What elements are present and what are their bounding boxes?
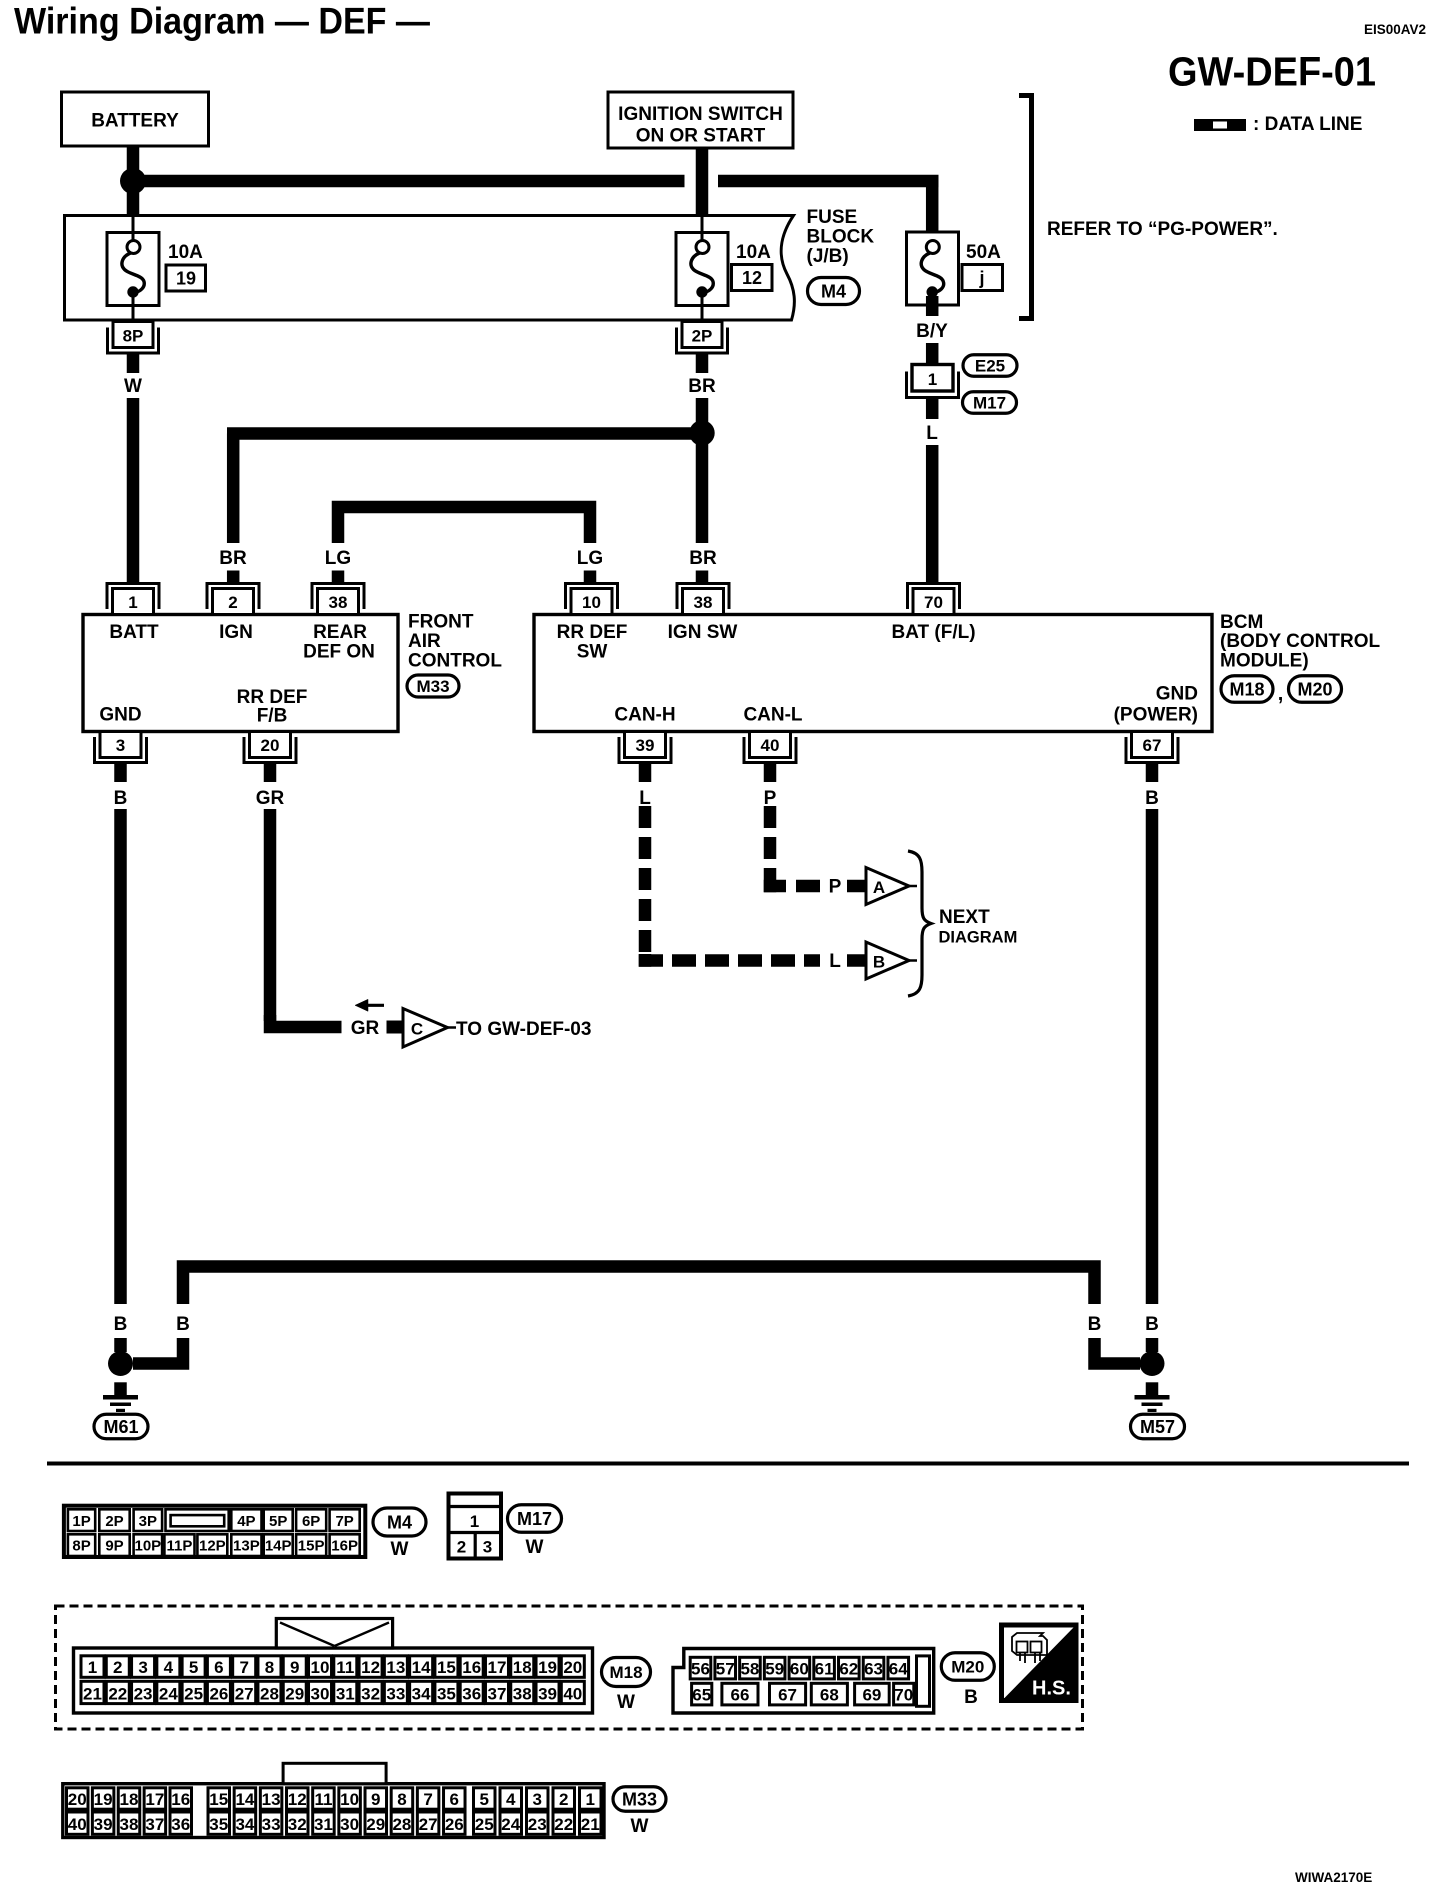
svg-text:16: 16 [171,1790,190,1809]
svg-text:(POWER): (POWER) [1114,705,1198,726]
svg-text:C: C [411,1020,423,1039]
wire right elbow down to 50A fuse [926,181,939,243]
svg-text:12P: 12P [199,1538,226,1555]
svg-text:64: 64 [889,1659,908,1678]
svg-text:12: 12 [361,1658,380,1677]
wire CAN-L stub [764,763,777,782]
svg-text:10P: 10P [134,1538,161,1555]
svg-text:32: 32 [288,1815,307,1834]
svg-text:5: 5 [480,1790,489,1809]
wire battery junction to fuse block [127,181,140,214]
svg-text:M20: M20 [951,1658,984,1677]
svg-text:W: W [124,376,142,397]
svg-text:19: 19 [94,1790,113,1809]
svg-text:70: 70 [894,1685,913,1704]
svg-text:10: 10 [340,1790,359,1809]
svg-text:,: , [1278,683,1284,705]
connector 8P under fuse 19 [108,328,159,354]
svg-text:50A: 50A [966,242,1001,263]
svg-text:38: 38 [513,1684,532,1703]
svg-text:9: 9 [371,1790,380,1809]
svg-text:1: 1 [128,593,137,612]
svg-text:21: 21 [581,1815,600,1834]
svg-text:65: 65 [692,1685,711,1704]
svg-text:F/B: F/B [257,706,288,727]
wire FAC3 stub [114,763,127,782]
connector table M33 [63,1784,604,1838]
svg-text:M17: M17 [517,1509,552,1529]
svg-text:B: B [1145,1314,1159,1335]
junction dot battery bus [120,168,146,194]
svg-text:9P: 9P [105,1538,123,1555]
svg-text:IGNITION SWITCH: IGNITION SWITCH [618,104,783,125]
svg-text:16P: 16P [331,1538,358,1555]
svg-text:GND: GND [1156,684,1198,705]
svg-text:17: 17 [145,1790,164,1809]
svg-text:7: 7 [423,1790,432,1809]
svg-text:3P: 3P [139,1513,157,1530]
stub to arrow C [387,1021,402,1034]
svg-text:24: 24 [501,1815,520,1834]
svg-text:36: 36 [171,1815,190,1834]
svg-text:63: 63 [864,1659,883,1678]
svg-text:6: 6 [214,1658,223,1677]
svg-text:27: 27 [235,1684,254,1703]
svg-text:28: 28 [392,1815,411,1834]
svg-text:7P: 7P [335,1513,353,1530]
svg-text:67: 67 [1143,736,1162,755]
svg-text:11: 11 [336,1658,354,1677]
bus wire battery junction to ignition crossing [139,175,685,188]
fuse 10A #19 [107,233,159,306]
svg-text:3: 3 [533,1790,542,1809]
svg-text:10A: 10A [168,242,203,263]
svg-text:5P: 5P [269,1513,287,1530]
svg-text:26: 26 [209,1684,228,1703]
svg-text:GR: GR [256,788,285,809]
svg-text:6P: 6P [302,1513,320,1530]
connector table M18 [74,1648,593,1713]
svg-text:3: 3 [483,1538,492,1557]
svg-text:35: 35 [437,1684,456,1703]
svg-text:WIWA2170E: WIWA2170E [1295,1870,1372,1885]
svg-text:9: 9 [290,1658,299,1677]
wire 2P to BR label [696,354,709,373]
svg-text:: DATA LINE: : DATA LINE [1253,114,1362,135]
arrow B to next diagram [866,942,909,979]
svg-text:12: 12 [742,268,762,288]
svg-text:W: W [391,1539,409,1560]
svg-text:23: 23 [528,1815,547,1834]
svg-text:4: 4 [506,1790,516,1809]
wire 8P to W label [127,354,140,373]
svg-text:1: 1 [928,370,937,389]
BCM pin 39 [619,737,671,763]
svg-text:W: W [631,1816,649,1837]
svg-text:BLOCK: BLOCK [807,227,875,248]
svg-text:38: 38 [694,593,713,612]
svg-text:E25: E25 [975,357,1005,376]
wire FAC GND long down [114,809,127,1304]
wire BR label to junction [696,398,709,433]
svg-text:31: 31 [336,1684,355,1703]
svg-text:B: B [964,1687,978,1708]
ignition switch [608,92,793,148]
wire B/Y to inline connector [926,343,939,365]
svg-text:21: 21 [83,1684,102,1703]
svg-text:L: L [926,423,938,444]
svg-text:M17: M17 [973,394,1006,413]
svg-text:TO GW-DEF-03: TO GW-DEF-03 [456,1019,591,1040]
svg-text:BR: BR [689,548,717,569]
svg-text:GW-DEF-01: GW-DEF-01 [1168,49,1376,95]
svg-text:66: 66 [730,1685,749,1704]
inline connector 1 (E25/M17) [907,372,959,398]
svg-text:RR DEF: RR DEF [557,622,628,643]
front air control box [83,615,398,732]
svg-text:P: P [829,877,842,898]
svg-text:22: 22 [108,1684,127,1703]
svg-text:40: 40 [761,736,780,755]
svg-text:1P: 1P [72,1513,90,1530]
data line CAN-H dashed [639,806,652,828]
wire W to FAC pin 1 [127,398,140,584]
svg-text:IGN: IGN [219,622,253,643]
svg-text:M4: M4 [821,281,846,301]
data line legend [1194,119,1246,131]
FAC pin 1 [107,584,159,610]
svg-text:DEF ON: DEF ON [303,642,375,663]
svg-text:2P: 2P [692,327,713,346]
svg-text:4P: 4P [237,1513,255,1530]
svg-text:31: 31 [314,1815,333,1834]
svg-text:62: 62 [839,1659,858,1678]
svg-text:20: 20 [563,1658,582,1677]
svg-text:25: 25 [475,1815,494,1834]
ground ref M57 [1131,1414,1185,1439]
svg-text:38: 38 [120,1815,139,1834]
svg-text:FRONT: FRONT [408,612,474,633]
svg-text:15: 15 [209,1790,228,1809]
stub to arrow A [847,880,866,893]
svg-text:SW: SW [577,642,608,663]
svg-text:11P: 11P [167,1538,193,1555]
svg-text:(J/B): (J/B) [807,246,849,267]
svg-text:13: 13 [386,1658,405,1677]
svg-text:59: 59 [765,1659,784,1678]
connector table M17 [449,1494,502,1559]
wire GR down [264,809,277,1021]
svg-text:67: 67 [778,1685,797,1704]
svg-text:2: 2 [559,1790,568,1809]
svg-text:20: 20 [261,736,280,755]
svg-text:37: 37 [145,1815,164,1834]
FAC pin 2 [207,584,259,610]
svg-text:B: B [176,1314,190,1335]
svg-text:20: 20 [68,1790,87,1809]
svg-text:56: 56 [691,1659,710,1678]
svg-text:29: 29 [285,1684,304,1703]
data line CAN-L dashed [764,806,777,828]
svg-text:L: L [829,951,841,972]
svg-text:18: 18 [120,1790,139,1809]
separator line [47,1462,1409,1466]
svg-text:A: A [873,878,885,897]
H.S. badge [1002,1625,1077,1701]
BCM pin 38 [677,584,729,610]
svg-text:11: 11 [314,1790,332,1809]
connector ref E25 [963,355,1017,377]
svg-text:36: 36 [462,1684,481,1703]
wire ignition switch down through bus to fuse block [696,148,709,214]
svg-text:69: 69 [862,1685,881,1704]
svg-text:Wiring Diagram — DEF —: Wiring Diagram — DEF — [14,1,430,42]
svg-text:2: 2 [457,1538,466,1557]
svg-text:M4: M4 [387,1512,412,1532]
svg-text:23: 23 [134,1684,153,1703]
svg-text:10A: 10A [736,242,771,263]
wire BCM67 stub [1146,763,1159,782]
svg-text:28: 28 [260,1684,279,1703]
svg-text:LG: LG [325,548,351,569]
svg-text:W: W [526,1537,544,1558]
ground symbol left [114,1382,127,1395]
svg-text:7: 7 [239,1658,248,1677]
svg-text:CONTROL: CONTROL [408,651,502,672]
svg-text:32: 32 [361,1684,380,1703]
connector ref M17 [963,392,1017,414]
BCM pin 40 [744,737,796,763]
svg-text:EIS00AV2: EIS00AV2 [1364,22,1426,37]
svg-text:NEXT: NEXT [939,907,990,928]
svg-text:GND: GND [99,705,141,726]
svg-text:34: 34 [412,1684,431,1703]
arrow C to GW-DEF-03 [403,1009,448,1048]
svg-text:2P: 2P [105,1513,123,1530]
connector table M4 [64,1506,365,1557]
svg-text:61: 61 [815,1659,834,1678]
svg-text:BATTERY: BATTERY [91,111,179,132]
svg-text:DIAGRAM: DIAGRAM [939,929,1018,947]
svg-text:5: 5 [189,1658,198,1677]
svg-text:38: 38 [329,593,348,612]
bracket for PG-POWER [1019,96,1032,319]
svg-text:BAT (F/L): BAT (F/L) [891,622,975,643]
svg-text:33: 33 [262,1815,281,1834]
fuse 10A #12 [676,233,728,306]
svg-text:68: 68 [820,1685,839,1704]
svg-text:B: B [873,953,885,972]
svg-text:j: j [978,268,984,288]
svg-text:M33: M33 [416,677,449,696]
connector ref M18 (bottom) [602,1658,651,1687]
battery [62,92,209,146]
svg-text:60: 60 [790,1659,809,1678]
svg-text:1: 1 [470,1512,479,1531]
svg-text:25: 25 [184,1684,203,1703]
arrow A to next diagram [866,868,909,905]
connector table M20 [673,1649,934,1714]
svg-text:33: 33 [386,1684,405,1703]
svg-text:M18: M18 [1229,679,1264,699]
svg-text:13: 13 [262,1790,281,1809]
ground ref M61 [94,1414,148,1439]
svg-text:15: 15 [437,1658,456,1677]
ground symbol right [1146,1382,1159,1395]
svg-text:B: B [114,1314,128,1335]
svg-text:12: 12 [288,1790,307,1809]
BCM pin 70 [908,584,960,610]
FAC pin 20 [244,737,296,763]
svg-text:40: 40 [68,1815,87,1834]
svg-text:14P: 14P [265,1538,292,1555]
svg-text:H.S.: H.S. [1032,1678,1071,1700]
svg-text:1: 1 [88,1658,97,1677]
wire GR elbow to right [270,1015,342,1027]
svg-text:19: 19 [176,269,196,289]
wire L label to BCM pin 70 [926,445,939,584]
svg-text:IGN SW: IGN SW [668,622,738,643]
svg-text:10: 10 [582,593,601,612]
svg-text:B: B [114,788,128,809]
FAC pin 3 [95,737,147,763]
connector ref M4 [808,278,860,305]
svg-text:MODULE): MODULE) [1220,651,1309,672]
svg-text:BATT: BATT [109,622,159,643]
svg-text:P: P [764,788,777,809]
svg-text:30: 30 [311,1684,330,1703]
svg-text:1: 1 [586,1790,595,1809]
wire LG loop [338,507,590,543]
connector ref M33 [407,675,459,697]
svg-text:M20: M20 [1297,679,1332,699]
BCM pin 10 [566,584,618,610]
svg-text:40: 40 [563,1684,582,1703]
svg-text:6: 6 [450,1790,459,1809]
small arrow left [362,1004,384,1007]
fuse block J/B outline [65,216,795,321]
svg-text:B/Y: B/Y [916,321,948,342]
svg-text:22: 22 [554,1815,573,1834]
svg-text:ON OR START: ON OR START [636,126,766,147]
svg-text:10: 10 [311,1658,330,1677]
svg-text:2: 2 [228,593,237,612]
svg-text:REAR: REAR [313,622,367,643]
wire BR junction down to label [696,433,709,543]
svg-text:18: 18 [513,1658,532,1677]
connector ref M4 (table) [373,1508,426,1536]
wire connector 1 to L label [926,398,939,419]
wire 50A fuse to B/Y label [926,296,939,316]
H.S. badge icon [1012,1633,1047,1655]
svg-text:3: 3 [138,1658,147,1677]
ground bus loop [183,1267,1095,1305]
svg-text:39: 39 [94,1815,113,1834]
svg-text:58: 58 [740,1659,759,1678]
svg-text:B: B [1088,1314,1102,1335]
svg-text:REFER TO “PG-POWER”.: REFER TO “PG-POWER”. [1047,219,1278,240]
svg-text:M61: M61 [103,1417,138,1437]
svg-text:FUSE: FUSE [807,207,858,228]
svg-text:30: 30 [340,1815,359,1834]
connector ref M17 (table) [508,1505,562,1533]
svg-text:8: 8 [265,1658,274,1677]
50A fuse internals [926,241,939,254]
wire BR branch horizontal [227,427,702,440]
wire battery to junction [127,146,140,181]
svg-text:29: 29 [366,1815,385,1834]
svg-text:M57: M57 [1140,1417,1175,1437]
svg-text:BCM: BCM [1220,612,1263,633]
svg-text:15P: 15P [298,1538,325,1555]
svg-text:13P: 13P [233,1538,260,1555]
svg-text:14: 14 [412,1658,431,1677]
svg-text:8P: 8P [123,327,144,346]
svg-text:AIR: AIR [408,631,441,652]
svg-text:19: 19 [538,1658,557,1677]
svg-text:M33: M33 [622,1789,657,1809]
FAC pin 38 [312,584,364,610]
svg-text:W: W [617,1692,635,1713]
connector refs M18 M20 [1221,676,1273,703]
svg-text:GR: GR [351,1018,380,1039]
wire CAN-H stub [639,763,652,782]
brace next diagram [908,851,931,996]
connector ref M33 (bottom) [613,1787,666,1812]
svg-text:14: 14 [235,1790,254,1809]
wire BCM GND long down [1146,809,1159,1304]
wire BR branch down to FAC pin 2 [227,434,240,544]
svg-text:24: 24 [159,1684,178,1703]
svg-text:34: 34 [235,1815,254,1834]
ground junction dot right [1140,1351,1165,1376]
svg-text:B: B [1145,788,1159,809]
junction dot BR [689,420,714,445]
svg-text:27: 27 [419,1815,438,1834]
svg-text:BR: BR [688,376,716,397]
svg-text:16: 16 [462,1658,481,1677]
svg-text:(BODY CONTROL: (BODY CONTROL [1220,631,1380,652]
fuse 50A j [907,232,959,305]
svg-text:26: 26 [445,1815,464,1834]
svg-text:L: L [639,788,651,809]
BCM pin 67 [1126,737,1178,763]
svg-text:CAN-H: CAN-H [614,705,675,726]
svg-text:70: 70 [924,593,943,612]
bus wire ignition crossing to right elbow [718,175,939,188]
wire FAC20 stub [264,763,277,782]
wire stubs to pins [227,571,240,584]
BCM box [534,615,1212,732]
svg-text:CAN-L: CAN-L [743,705,802,726]
svg-text:37: 37 [488,1684,507,1703]
svg-text:M18: M18 [609,1663,642,1682]
svg-text:8: 8 [397,1790,406,1809]
svg-text:4: 4 [164,1658,174,1677]
svg-text:8P: 8P [72,1538,90,1555]
svg-text:3: 3 [116,736,125,755]
dashed group box [56,1606,1083,1729]
connector 2P under fuse 12 [677,328,728,354]
svg-text:35: 35 [209,1815,228,1834]
svg-text:39: 39 [538,1684,557,1703]
svg-text:57: 57 [716,1659,735,1678]
svg-text:BR: BR [219,548,247,569]
svg-text:2: 2 [113,1658,122,1677]
ground junction dot left [108,1351,133,1376]
svg-text:39: 39 [636,736,655,755]
svg-text:17: 17 [488,1658,507,1677]
